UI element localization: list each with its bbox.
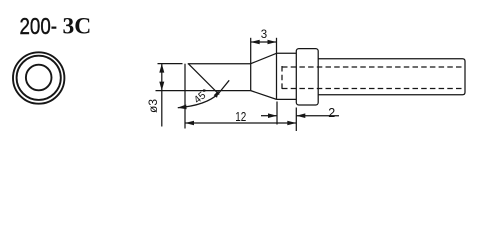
- svg-text:45°: 45°: [192, 87, 212, 106]
- wire: dia3 bottom extension line / 45deg base / tip bottom edge: [156, 90, 251, 92]
- tip top edge: [188, 63, 251, 65]
- dim2 right arrow line: [296, 115, 339, 117]
- arrow 45deg at bevel: [214, 90, 220, 98]
- arrow dim2 pointing left: [296, 113, 305, 118]
- dim3 dimension line: [251, 41, 277, 43]
- svg-text:ø3: ø3: [146, 99, 160, 113]
- cone bottom edge: [251, 91, 277, 100]
- svg-text:3: 3: [261, 29, 267, 41]
- arrow dim3 left: [251, 40, 260, 45]
- svg-text:3C: 3C: [63, 13, 92, 39]
- dim12 dimension line: [185, 122, 296, 124]
- 45deg leader arc: [178, 80, 229, 107]
- arrow dim2 pointing right: [268, 113, 277, 118]
- tip cross-section icon: outer circle: [13, 52, 64, 103]
- arrow dia3 down: [159, 82, 164, 91]
- hidden bore top line: [282, 66, 462, 68]
- ferrule bottom edge: [277, 98, 297, 100]
- svg-text:2: 2: [328, 106, 335, 120]
- dia3 dimension line vertical: [161, 64, 163, 127]
- dim2 left arrow line: [261, 115, 277, 117]
- tip cross-section icon: middle circle: [17, 56, 61, 100]
- nut block: [296, 49, 318, 105]
- dim12 left extension line: [184, 64, 186, 129]
- cone/ferrule junction + dim3 right extension: [276, 38, 278, 100]
- arrow 45deg lower-left: [177, 105, 186, 110]
- svg-text:12: 12: [235, 110, 246, 124]
- bevel edge 45deg: [188, 64, 219, 95]
- wire: dia3 top extension line: [158, 63, 183, 65]
- dim2 left extension line: [276, 102, 278, 125]
- arrow dim12 right: [287, 121, 296, 126]
- svg-text:200-: 200-: [20, 13, 58, 39]
- hidden bore bottom line: [282, 88, 462, 90]
- arrow dim12 left: [185, 121, 194, 126]
- cone top edge: [251, 53, 277, 63]
- dim3 left extension through tip: [250, 38, 252, 91]
- dim12/dim2 right extension line: [295, 108, 297, 132]
- shank outline: [318, 59, 465, 95]
- ferrule top edge: [277, 52, 297, 54]
- tip cross-section icon: inner circle: [26, 65, 52, 91]
- arrow dia3 up: [159, 64, 164, 73]
- hidden bore left end: [281, 66, 283, 90]
- arrow dim3 right: [268, 40, 277, 45]
